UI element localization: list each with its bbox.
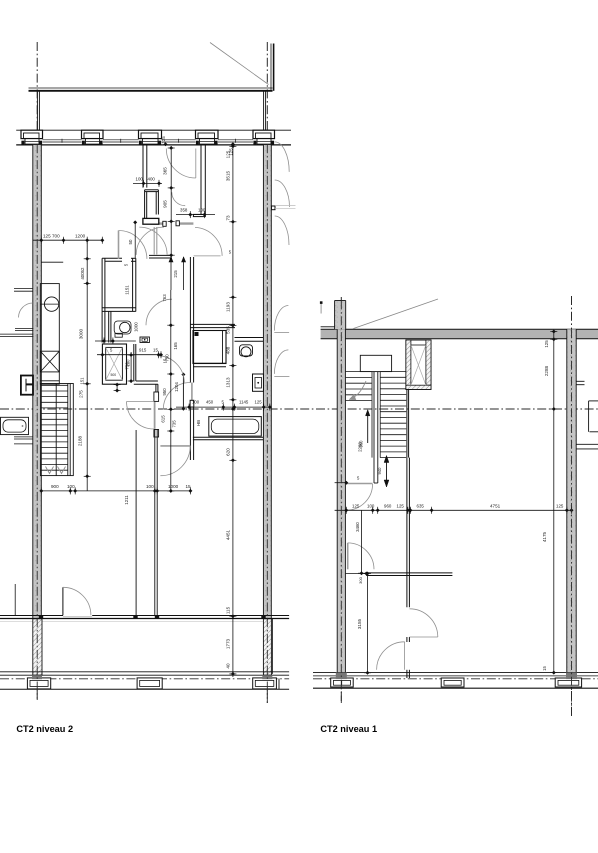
svg-text:1193: 1193 <box>225 302 230 312</box>
stair landing box right plan <box>360 355 391 371</box>
kitchen hob <box>40 351 59 372</box>
stairs left plan <box>40 384 73 476</box>
door posts and leaf hall-living <box>127 392 159 437</box>
svg-text:CT2 niveau 2: CT2 niveau 2 <box>16 724 73 734</box>
svg-text:750: 750 <box>125 362 130 370</box>
corridor double wall x=156 <box>155 429 157 616</box>
svg-text:125: 125 <box>43 234 51 239</box>
svg-text:4751: 4751 <box>490 504 501 509</box>
double door arcs hall entry <box>136 227 167 255</box>
neighbour wall left bottom <box>14 584 16 616</box>
svg-text:275: 275 <box>79 390 84 398</box>
dimension vertical x=361 right plan <box>355 510 365 575</box>
svg-text:125: 125 <box>397 504 405 509</box>
wall stub below shaft <box>407 389 409 457</box>
electrical panel box left wall <box>21 376 33 395</box>
svg-text:4451: 4451 <box>225 529 230 540</box>
svg-text:905: 905 <box>163 200 168 208</box>
svg-text:2288: 2288 <box>544 365 549 376</box>
kitchen counter division line <box>40 380 59 382</box>
svg-text:100: 100 <box>192 400 200 405</box>
door leaf+arc stair hall <box>335 476 373 511</box>
svg-text:15: 15 <box>186 484 192 489</box>
svg-text:615: 615 <box>161 415 166 423</box>
title CT2 niveau 1 <box>320 724 377 734</box>
wall x=203 bedroom2 <box>193 145 205 217</box>
dimension row y=407 hall <box>176 400 272 411</box>
door arc hall to corridor <box>194 227 232 256</box>
top gray band right plan <box>321 327 598 339</box>
bottom band left plan <box>0 672 289 689</box>
roof diagonal line <box>210 43 269 85</box>
svg-text:100: 100 <box>367 504 375 509</box>
dimension vertical x=367 right plan <box>346 572 371 675</box>
svg-text:950: 950 <box>162 388 167 396</box>
dimension horizontal y=240 kitchen <box>33 234 104 244</box>
neighbour floor line left y=289 <box>14 289 33 292</box>
dimension arrows 215 hall <box>169 257 186 290</box>
neighbour bathtub left <box>1 417 29 434</box>
svg-text:300: 300 <box>358 576 363 583</box>
neighbour door arc left <box>19 303 33 318</box>
svg-text:635: 635 <box>417 504 425 509</box>
svg-text:1000: 1000 <box>168 484 179 489</box>
svg-text:3155: 3155 <box>357 618 362 629</box>
closet bottom cap <box>143 218 159 224</box>
interior wall right plan x=408 <box>407 458 410 678</box>
hall south wall y=256 <box>149 255 172 258</box>
dimension horizontal y=510 right plan <box>335 504 574 514</box>
svg-text:400: 400 <box>148 177 156 182</box>
kitchen counter <box>40 284 59 385</box>
door arc left opening <box>377 642 405 670</box>
section marker top left <box>320 301 323 313</box>
svg-text:1204: 1204 <box>174 382 179 392</box>
dimension hall chain x=170 <box>161 290 201 493</box>
svg-text:915: 915 <box>139 348 147 353</box>
toilet bathroom1 <box>114 321 131 337</box>
svg-text:125: 125 <box>352 504 360 509</box>
hatched pier left below wall <box>33 619 42 675</box>
svg-text:500: 500 <box>111 373 117 377</box>
door arc bedroom2 top <box>166 149 196 179</box>
label 2288 stairs <box>358 442 363 452</box>
svg-text:960: 960 <box>384 504 392 509</box>
wall x=145 below band <box>143 145 147 188</box>
stair arrow double vertical <box>377 456 389 488</box>
left wall stub above band <box>37 91 39 130</box>
svg-text:750: 750 <box>164 354 169 362</box>
axis B (dash-dot) x=267 <box>266 42 268 703</box>
svg-text:115: 115 <box>225 606 230 614</box>
svg-text:1151: 1151 <box>125 285 130 295</box>
bottom band right plan <box>313 673 598 689</box>
title CT2 niveau 2 <box>16 724 73 734</box>
window band top facade <box>16 130 291 145</box>
kitchen top line y=262 <box>41 261 63 263</box>
svg-text:1211: 1211 <box>124 495 129 505</box>
dimension x=131 shower col <box>114 352 135 393</box>
dimension x=135 tick with 50 label <box>128 220 137 258</box>
left wall right plan (hatched) <box>335 301 346 679</box>
neighbour lines left y=330 <box>0 328 33 336</box>
axis B overlay <box>266 144 268 703</box>
axis C (dash-dot) x=341 <box>340 297 342 703</box>
svg-text:1000: 1000 <box>133 322 138 332</box>
door arc hall upper <box>146 299 172 325</box>
svg-text:1313: 1313 <box>225 377 230 388</box>
svg-text:HB: HB <box>196 420 201 426</box>
door leaf+arc hall-bath <box>160 446 190 476</box>
left exterior wall (hatched) <box>33 145 42 619</box>
axis D overlay <box>571 329 573 716</box>
gray partition walls hall <box>151 224 194 255</box>
svg-text:700: 700 <box>52 234 60 239</box>
stair arrow vertical with label <box>359 410 370 448</box>
washbasin right wall <box>253 374 264 391</box>
door jamb posts hall <box>163 221 180 227</box>
shower square <box>193 331 226 364</box>
door arc bedroom3 <box>163 383 190 410</box>
axis A (dash-dot) x=37 <box>36 42 38 700</box>
dimension y=183 closet <box>133 177 162 187</box>
svg-text:3460: 3460 <box>355 522 360 532</box>
section axis horizontal y=409 <box>0 408 598 410</box>
svg-text:125: 125 <box>544 340 549 348</box>
dimension chain vertical x=171 <box>163 146 175 257</box>
stair central stringers <box>372 372 380 483</box>
canopy edge double line top <box>29 88 273 91</box>
svg-text:151: 151 <box>80 377 85 385</box>
svg-text:488: 488 <box>225 346 230 354</box>
door leaf+arc into room above bath <box>119 231 147 260</box>
svg-text:2288: 2288 <box>358 442 363 452</box>
dimension vertical x=87 <box>78 240 91 491</box>
axis D (dash-dot) x=571 <box>571 296 573 716</box>
hatched pier right below wall <box>263 619 272 675</box>
bathroom1 room walls <box>102 258 136 342</box>
wall right of shaft <box>134 344 158 401</box>
svg-text:15: 15 <box>153 348 158 353</box>
svg-text:100: 100 <box>146 484 154 489</box>
corridor wall line x=136 <box>135 430 137 616</box>
svg-text:15: 15 <box>542 666 547 671</box>
elevator shaft left plan <box>102 344 126 384</box>
svg-text:CT2 niveau 1: CT2 niveau 1 <box>320 724 377 734</box>
svg-text:165: 165 <box>173 342 178 350</box>
svg-text:940: 940 <box>377 467 382 475</box>
stair treads left flight <box>346 372 372 401</box>
dimension vertical x=554 right plan <box>542 330 557 675</box>
svg-text:1145: 1145 <box>239 400 249 405</box>
svg-text:400: 400 <box>80 272 85 280</box>
svg-text:4175: 4175 <box>542 531 547 542</box>
svg-text:100: 100 <box>136 177 144 182</box>
dimension labels above band <box>161 136 235 156</box>
svg-text:1200: 1200 <box>75 234 86 239</box>
svg-text:900: 900 <box>51 484 59 489</box>
svg-text:358: 358 <box>180 208 188 213</box>
dimension y=341 bath1 <box>95 263 138 344</box>
svg-text:125: 125 <box>255 400 263 405</box>
bathtub <box>209 417 261 437</box>
svg-text:100: 100 <box>67 484 75 489</box>
svg-text:535: 535 <box>225 326 230 334</box>
door leaf+arc lower left right plan <box>348 543 374 569</box>
svg-text:3000: 3000 <box>79 328 84 339</box>
neighbour door arcs right side <box>272 142 296 377</box>
bottom wall left plan y=613 <box>0 615 289 622</box>
svg-text:735: 735 <box>172 420 177 428</box>
walls around shower <box>190 324 235 366</box>
door arc closet <box>172 192 185 205</box>
dimension line x=183 hall <box>181 373 185 411</box>
stair treads right flight <box>380 372 406 458</box>
svg-text:1773: 1773 <box>225 638 230 649</box>
right wall right plan (hatched) <box>567 329 576 678</box>
stair direction arrow gray <box>349 381 366 400</box>
axis A overlay <box>36 144 38 700</box>
dimension y=355 shaft <box>97 348 168 367</box>
dimension chain vertical x=233 full height <box>225 144 236 677</box>
svg-text:73: 73 <box>225 215 230 221</box>
wall stub y=574 right plan <box>366 573 452 576</box>
washbasin bathroom1 <box>140 337 149 343</box>
svg-text:2188: 2188 <box>78 435 83 446</box>
diagonal line right plan <box>353 299 438 329</box>
shaft with X right plan <box>406 340 431 389</box>
right exterior wall (hatched) <box>263 145 271 619</box>
neighbour walls far right <box>576 381 598 449</box>
svg-text:125: 125 <box>161 136 166 144</box>
dimension y=215 doors <box>176 208 215 219</box>
svg-text:215: 215 <box>173 270 178 278</box>
svg-text:450: 450 <box>206 400 214 405</box>
right wall stub above band <box>264 91 266 130</box>
svg-text:52: 52 <box>80 267 85 272</box>
svg-text:763: 763 <box>162 294 167 302</box>
wc bathroom2 <box>240 345 253 357</box>
svg-text:40: 40 <box>225 663 230 669</box>
terrace door leaf+arc <box>63 587 91 615</box>
wall below bathtub y=438 <box>193 437 263 440</box>
svg-text:50: 50 <box>128 239 133 244</box>
svg-text:365: 365 <box>163 167 168 175</box>
door arc right opening <box>410 609 438 637</box>
wall A x=192 hall/bath <box>190 257 194 460</box>
axis C overlay <box>340 301 342 704</box>
dimension horizontal y=491 <box>39 484 192 505</box>
bathroom2 wall y=339 <box>235 338 264 342</box>
svg-text:620: 620 <box>225 448 230 456</box>
neighbour lines left y=440 <box>14 437 33 444</box>
svg-text:100: 100 <box>198 208 206 213</box>
door arc hall mid <box>157 356 184 383</box>
svg-text:3515: 3515 <box>225 170 230 181</box>
canopy right corner vertical <box>271 44 274 91</box>
axis through bottom bands y=679 <box>0 678 598 680</box>
closet niche walls <box>145 190 159 222</box>
svg-text:125: 125 <box>556 504 564 509</box>
svg-text:125: 125 <box>228 148 233 156</box>
